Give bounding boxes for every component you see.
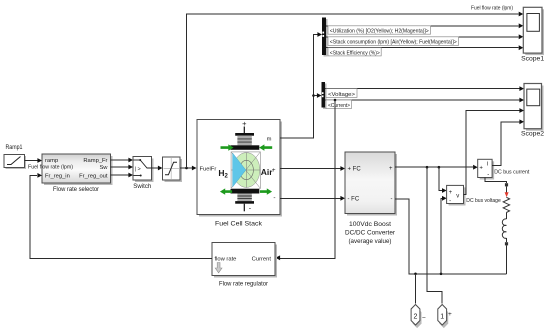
bus selector 1 (322, 18, 328, 57)
wire voltage + tap down (439, 167, 447, 193)
red polarity arrow (505, 192, 509, 197)
wire port 2 feed down (415, 274, 417, 304)
fuel cell icon: bottom-left green outlet arrow (220, 188, 232, 194)
svg-text:Fr_reg_in: Fr_reg_in (45, 173, 70, 179)
svg-text:Switch: Switch (133, 183, 151, 190)
svg-text:Current: Current (252, 256, 272, 262)
svg-text:<Voltage>: <Voltage> (328, 92, 355, 98)
wire load to bottom rail (505, 245, 507, 273)
load bottom terminal (505, 242, 508, 245)
wire Ramp1 to Flow rate selector ramp input (25, 158, 43, 163)
fuel cell icon: bottom end plate stack (231, 189, 260, 204)
svg-text:flow rate: flow rate (215, 256, 237, 262)
svg-text:ramp: ramp (45, 158, 58, 164)
wire converter + output rail to DC bus current (395, 165, 478, 170)
fuel cell icon: membrane cell square (231, 152, 260, 189)
svg-text:<Utilization (%) [O2(Yellow);: <Utilization (%) [O2(Yellow); H2(Magenta… (330, 29, 429, 35)
svg-text:1: 1 (440, 313, 444, 320)
svg-text:<Stack Efficiency (%)>: <Stack Efficiency (%)> (330, 50, 380, 56)
svg-text:+: + (389, 166, 393, 172)
svg-text:| >: | > (135, 166, 141, 172)
svg-text:+: + (479, 166, 483, 172)
svg-text:Flow rate regulator: Flow rate regulator (219, 281, 269, 288)
ramp source Ramp1 (4, 144, 26, 169)
junction node on Current wire (334, 99, 337, 102)
signal label box: Stack Efficiency (328, 48, 381, 57)
wire bus1 out3 to Scope1 input 4 (326, 45, 523, 50)
svg-text:i: i (487, 162, 488, 168)
svg-text:+: + (449, 190, 453, 196)
svg-text:Fuel Cell Stack: Fuel Cell Stack (215, 220, 263, 227)
svg-text:100Vdc Boost: 100Vdc Boost (349, 221, 391, 228)
svg-text:-: - (273, 195, 275, 202)
wire Fr_reg_out to Switch input 3 (111, 173, 134, 178)
svg-text:+ FC: + FC (348, 167, 362, 173)
wire inductor to bottom terminal (505, 238, 507, 242)
wire m output to bus selectors (280, 32, 322, 138)
bus selector 2 (322, 82, 327, 109)
svg-text:DC bus voltage: DC bus voltage (466, 198, 501, 204)
subsystem 100Vdc Boost DC/DC Converter (345, 152, 397, 245)
svg-text:(average value): (average value) (349, 238, 392, 245)
svg-text:v: v (456, 194, 459, 200)
subsystem Flow rate selector (42, 154, 113, 193)
subsystem Flow rate regulator (212, 243, 277, 288)
signal label box: Stack consumption (328, 37, 459, 46)
svg-text:+: + (242, 119, 247, 128)
fuel cell icon: blue hydrogen triangle (233, 153, 246, 187)
wire regulator output feedback to Fr_reg_in (30, 173, 212, 259)
wire bus1 out1 to Scope1 input 2 (326, 23, 523, 28)
switch block Switch (133, 157, 154, 191)
fuel cell icon: bottom-right green outlet arrow (260, 188, 272, 194)
wire converter - output down to bottom rail (395, 199, 506, 274)
junction node voltage - tap (440, 273, 443, 276)
svg-text:Ramp1: Ramp1 (6, 144, 23, 151)
svg-text:DC bus current: DC bus current (494, 169, 529, 175)
scope Scope2 (521, 84, 544, 138)
svg-text:2: 2 (414, 313, 418, 320)
svg-text:DC/DC Converter: DC/DC Converter (345, 230, 396, 237)
junction node port1 feed (426, 166, 429, 169)
svg-text:Scope1: Scope1 (521, 55, 544, 62)
junction node on FuelFr wire (185, 167, 188, 170)
saturation block (163, 157, 183, 182)
signal label box: Voltage (326, 89, 357, 98)
wire FCS - output to converter -FC input (280, 196, 345, 201)
svg-text:Sw: Sw (99, 165, 108, 171)
svg-text:Fr_reg_out: Fr_reg_out (79, 173, 108, 179)
subsystem Fuel Cell Stack (197, 120, 282, 228)
junction node voltage + tap (438, 166, 441, 169)
wire Switch to Saturation (152, 166, 163, 171)
wire bus2 Voltage to Scope2 input 1 (325, 86, 524, 91)
svg-text:+: + (448, 311, 452, 318)
resistor R load (503, 197, 509, 212)
svg-text:-: - (449, 199, 451, 205)
wire terminal to resistor (505, 186, 507, 192)
svg-text:Ramp_Fr: Ramp_Fr (83, 158, 107, 164)
wire current - output to load top (485, 178, 507, 184)
connection port 2 (411, 305, 426, 329)
scope Scope1 (521, 7, 544, 62)
svg-text:- FC: - FC (348, 197, 360, 203)
svg-text:−: − (422, 315, 426, 322)
junction node on m wire (312, 94, 315, 97)
wire Current branch down to Flow rate regulator (276, 100, 336, 260)
wire Saturation to Fuel Cell Stack FuelFr input (180, 166, 197, 171)
inductor L load (502, 219, 506, 238)
svg-text:Flow rate selector: Flow rate selector (53, 186, 100, 193)
svg-text:Fuel flow rate (lpm): Fuel flow rate (lpm) (28, 164, 73, 170)
svg-text:-: - (487, 172, 489, 178)
wire port 1 feed down (427, 167, 442, 303)
fuel cell icon: + terminal (242, 119, 247, 133)
junction node port 2 tap (414, 273, 417, 276)
wire current output up to Scope2 input 4 (492, 119, 524, 165)
svg-text:-: - (391, 196, 393, 202)
wire Sw to Switch input 2 (111, 165, 134, 170)
wire Ramp_Fr to Switch input 1 (111, 158, 134, 163)
wire branch up to Scope1 input 1 (fuel flow rate) (187, 12, 524, 168)
wire bus1 out2 to Scope1 input 3 (326, 34, 523, 39)
fuel cell icon: top-left green inlet arrow (221, 144, 234, 150)
connection port 1 (438, 305, 452, 329)
signal label box: Current (326, 100, 352, 109)
fuel cell icon: - terminal (244, 204, 252, 213)
wire FCS + output to converter +FC input (280, 166, 345, 171)
wire branch to bus selector 2 (314, 93, 322, 98)
svg-text:m: m (267, 137, 272, 143)
wire voltage - tap up (441, 196, 447, 274)
signal label box: Utilization (328, 26, 431, 35)
fuel cell icon: top end plate stack (231, 133, 260, 150)
svg-text:FuelFr: FuelFr (200, 166, 217, 172)
svg-text:Scope2: Scope2 (521, 130, 544, 137)
voltage measurement DC bus voltage (447, 185, 501, 205)
wire voltage output up to Scope2 input 3 (464, 108, 525, 194)
load top terminal (505, 183, 508, 186)
wire resistor to inductor (505, 213, 507, 220)
current measurement DC bus current (478, 159, 530, 179)
svg-text:<Stack consumption (lpm) [Air(: <Stack consumption (lpm) [Air(Yellow); F… (330, 40, 457, 46)
wire bus2 Current to Scope2 input 2 (325, 98, 524, 103)
fuel cell icon: top-right green inlet arrow (259, 144, 272, 150)
svg-text:<Current>: <Current> (328, 103, 350, 109)
svg-text:Air: Air (261, 167, 274, 177)
svg-text:Fuel flow rate (lpm): Fuel flow rate (lpm) (471, 6, 513, 12)
